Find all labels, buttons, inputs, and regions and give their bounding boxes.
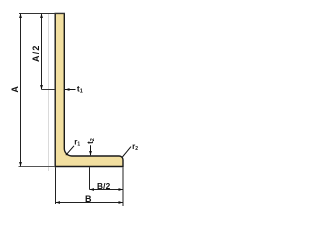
- ghost artifact line: [48, 14, 50, 172]
- A/2 bottom extension to leg: [42, 89, 56, 91]
- B right extension: [122, 167, 124, 206]
- dimension A/2 line: [41, 14, 43, 90]
- svg-text:A/2: A/2: [31, 44, 41, 62]
- t2 arrow: [90, 145, 92, 155]
- dimension A line: [20, 14, 22, 167]
- B/2 dimension line: [90, 189, 124, 191]
- B/2 mid extension: [89, 167, 91, 189]
- bottom extension line for A: [19, 166, 56, 168]
- B left extension: [55, 167, 57, 204]
- svg-text:B/2: B/2: [97, 181, 111, 191]
- B dimension line: [56, 202, 124, 204]
- svg-text:A: A: [10, 86, 20, 93]
- r1 leader: [66, 146, 74, 155]
- top extension line: [19, 13, 65, 15]
- A top arrow: [19, 14, 22, 19]
- A/2 bottom arrow: [40, 85, 43, 90]
- svg-text:B: B: [85, 194, 92, 204]
- t1 arrow: [65, 89, 76, 91]
- r2 leader: [122, 147, 131, 157]
- A bottom arrow: [19, 162, 22, 167]
- L-angle profile: [55, 13, 123, 166]
- A/2 top arrow: [40, 14, 43, 19]
